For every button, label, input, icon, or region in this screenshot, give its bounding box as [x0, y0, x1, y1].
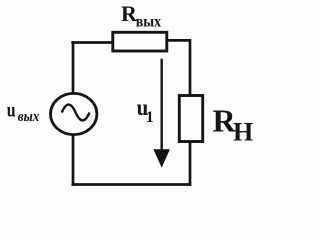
svg-text:Н: Н: [233, 117, 253, 146]
svg-text:1: 1: [146, 109, 154, 126]
svg-text:вых: вых: [18, 109, 40, 125]
svg-text:u: u: [7, 98, 16, 122]
svg-text:вых: вых: [136, 13, 161, 30]
